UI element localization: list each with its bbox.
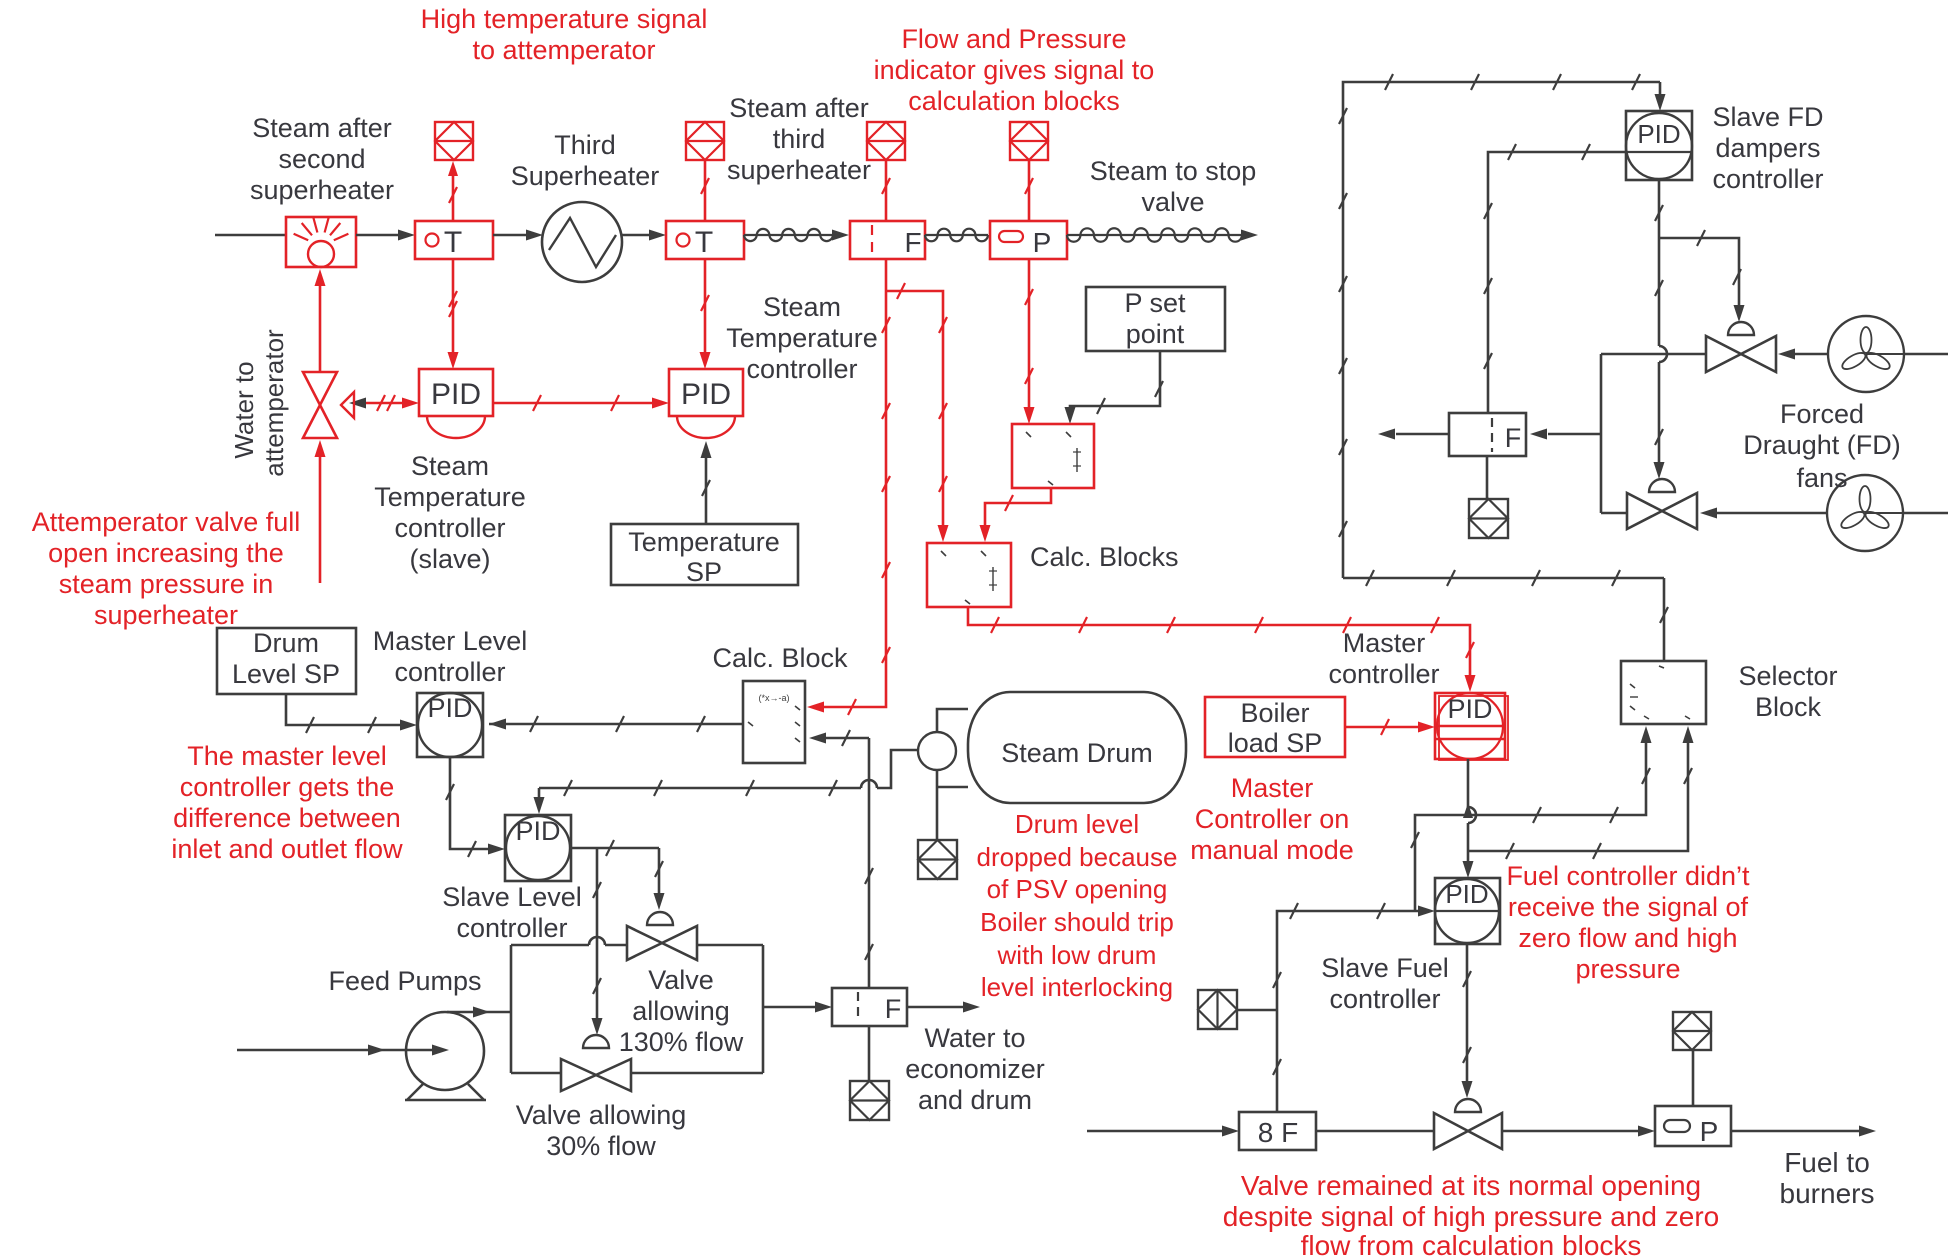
air diamond indicator [1469,499,1508,538]
wire steam line from second superheater [215,234,286,237]
wire attemperator to T1 [356,230,415,241]
svg-text:Calc. Block: Calc. Block [712,643,848,673]
label calc blocks [1030,542,1179,572]
wire to 30 percent valve [592,848,603,1035]
wire F to diamond [882,160,890,221]
wire drum impulse bottom and drum diamond link [937,770,968,840]
svg-text:level interlocking: level interlocking [981,972,1173,1002]
svg-text:superheater: superheater [94,600,238,630]
svg-text:Selector: Selector [1738,661,1837,691]
wire feed flow to calc block [809,730,869,746]
FD damper valve 2 [1627,479,1697,529]
wire air header [1530,354,1707,513]
wire P to diamond [1025,160,1033,221]
wire master level PID to slave level PID [446,757,505,857]
svg-text:difference between: difference between [173,803,401,833]
svg-text:Boiler: Boiler [1240,698,1309,728]
valve allowing 30 percent flow [561,1035,631,1091]
air flow transmitter F [1449,413,1526,456]
fuel pressure transmitter P [1655,1106,1731,1147]
label steam temperature controller slave [374,451,526,574]
wire selector input line to selector block [1343,570,1668,661]
wire drum level to slave level PID [534,750,919,814]
steam temperature controller PID1 slave [419,369,493,438]
wire boiler load SP to master PID [1345,719,1435,735]
svg-text:calculation blocks: calculation blocks [908,86,1120,116]
svg-text:of PSV opening: of PSV opening [987,874,1168,904]
svg-text:load SP: load SP [1228,728,1323,758]
svg-text:PID: PID [431,378,481,411]
svg-text:burners: burners [1780,1178,1875,1209]
feed pump [405,1012,486,1100]
wire steam T2 to F wavy [744,229,849,241]
calc block [743,681,805,763]
wire selector input A to fuel flow [1411,726,1652,911]
svg-text:controller: controller [456,913,567,943]
svg-text:F: F [904,227,921,258]
attemperator spray unit [286,217,356,267]
wire feed F to diamond [868,1026,871,1081]
wire selector output loop to FD PID [1339,74,1666,578]
label selector block [1738,661,1837,722]
wire master output to selector input B [1468,726,1694,859]
drum level SP box [217,628,356,694]
svg-text:Master Level: Master Level [373,626,528,656]
wire PID1 to attemperator valve [349,395,419,411]
wire master output to slave fuel PID [1463,851,1474,878]
label forced draught fans [1743,399,1901,493]
svg-text:dropped because: dropped because [977,842,1178,872]
wire slave level PID output to valves [571,840,659,856]
svg-text:controller: controller [394,513,505,543]
svg-text:Steam: Steam [763,292,841,322]
svg-text:F: F [885,994,902,1024]
wire fuel flow to slave fuel PID [1273,903,1435,1112]
svg-text:third: third [773,124,826,154]
label fuel controller didnt receive red [1506,861,1750,984]
wire superheater to T2 [622,230,666,241]
flow transmitter F steam [850,221,925,259]
label slave FD dampers controller [1712,102,1823,194]
boiler load SP box [1205,697,1345,758]
slave fuel controller PID [1435,878,1500,944]
svg-text:controller: controller [1328,659,1439,689]
svg-text:Attemperator valve full: Attemperator valve full [32,507,301,537]
svg-text:and drum: and drum [918,1085,1032,1115]
svg-text:Third: Third [554,130,616,160]
svg-text:Level SP: Level SP [232,659,340,689]
wire water supply to valve [315,440,326,583]
svg-text:pressure: pressure [1575,954,1680,984]
svg-text:economizer: economizer [905,1054,1045,1084]
svg-text:controller: controller [1329,984,1440,1014]
label water to attemperator rotated [229,329,289,477]
label master controller on manual mode red [1190,773,1354,865]
slave level controller PID [505,815,571,881]
wire calc block to master level PID [489,716,743,732]
calc block 1 red [1012,424,1094,488]
svg-text:controller: controller [746,354,857,384]
svg-text:controller: controller [1712,164,1823,194]
wire valve to attemperator [315,269,326,372]
wire T1 to diamond [448,161,458,221]
svg-text:High temperature signal: High temperature signal [421,4,708,34]
svg-text:Steam to stop: Steam to stop [1090,156,1257,186]
label valve allowing 130 [619,965,744,1057]
svg-text:superheater: superheater [727,155,871,185]
svg-text:PID: PID [1637,119,1680,149]
feedwater diamond indicator [850,1081,889,1120]
label master controller [1328,628,1439,689]
svg-text:Water to: Water to [924,1023,1025,1053]
svg-text:Valve remained at its normal o: Valve remained at its normal opening [1241,1170,1701,1201]
svg-text:Steam: Steam [411,451,489,481]
temperature transmitter T2 [666,221,744,259]
svg-text:P: P [1033,227,1052,258]
svg-text:P set: P set [1124,288,1186,318]
FD fan 2 [1827,475,1903,551]
label flow and pressure indicator red [874,24,1155,116]
wire drum level SP to master level PID [286,694,417,733]
fuel valve [1434,1099,1502,1149]
svg-text:Boiler should trip: Boiler should trip [980,907,1174,937]
label steam after second superheater [250,113,394,205]
steam temperature controller PID2 [669,369,743,438]
wire air flow to FD PID [1484,144,1626,413]
master level controller PID [417,693,483,757]
FD fan 1 [1828,316,1904,392]
wire fuel P to diamond [1692,1050,1695,1106]
steam drum [968,692,1186,803]
svg-text:to attemperator: to attemperator [472,35,655,65]
label valve remained red [1223,1170,1720,1257]
wire steam P signal down to calc1 [1024,259,1035,424]
label feed pumps [328,966,481,996]
label calc block [712,643,848,673]
indicator diamond above F [867,122,905,160]
svg-text:controller: controller [394,657,505,687]
wire feed pump inlet [237,1045,449,1056]
label the master level controller red [171,741,403,864]
fuel diamond indicator left [1198,990,1277,1029]
svg-text:PID: PID [1445,879,1488,909]
wire air F to diamond [1486,456,1489,499]
svg-text:PID: PID [515,816,560,846]
svg-text:Steam after: Steam after [729,93,869,123]
svg-text:controller gets the: controller gets the [180,772,395,802]
svg-text:Slave FD: Slave FD [1712,102,1823,132]
svg-text:second: second [278,144,365,174]
svg-text:30% flow: 30% flow [546,1131,656,1161]
label attemperator valve full open red [32,507,301,630]
wire steam F to P wavy [925,229,988,242]
label master level controller [373,626,528,687]
wire to 130 percent valve [654,848,665,910]
indicator diamond above T2 [686,122,724,160]
svg-text:PID: PID [681,378,731,411]
svg-text:Drum level: Drum level [1015,809,1139,839]
svg-text:F: F [1505,423,1522,453]
wire drum impulse top [937,709,968,732]
svg-text:Valve allowing: Valve allowing [516,1100,687,1130]
selector block [1621,661,1706,724]
label steam after third superheater [727,93,871,185]
wire feed F transmitter up [865,738,873,988]
indicator diamond above T1 [435,122,473,160]
wire P set point to calc1 [1065,351,1164,424]
svg-text:Fuel to: Fuel to [1784,1147,1870,1178]
svg-text:Calc. Blocks: Calc. Blocks [1030,542,1179,572]
master controller PID red [1435,693,1508,760]
svg-text:inlet and outlet flow: inlet and outlet flow [171,834,403,864]
label high temperature signal red [421,4,708,65]
svg-text:manual mode: manual mode [1190,835,1354,865]
wire to feed F box [763,1002,832,1013]
wire FD PID branch to damper 1 [1659,230,1745,322]
wire air F output left [1378,429,1449,440]
svg-text:Temperature: Temperature [374,482,526,512]
wire PID1 to PID2 [493,395,669,411]
fuel flow element 8F box [1239,1112,1316,1150]
label water to economizer [905,1023,1045,1115]
wire T1 to third superheater [493,230,543,241]
svg-text:(*x→-a): (*x→-a) [759,693,790,703]
wire steam F branch to calc2 [886,283,949,542]
svg-text:attemperator: attemperator [259,329,289,477]
svg-text:The master level: The master level [187,741,387,771]
wire steam F signal down to calc block [807,259,890,715]
svg-text:Valve: Valve [648,965,714,995]
P set point box [1086,287,1225,351]
drum level transmitter [918,732,956,770]
svg-text:open increasing the: open increasing the [48,538,284,568]
svg-text:Controller on: Controller on [1195,804,1350,834]
svg-text:indicator gives signal to: indicator gives signal to [874,55,1155,85]
indicator diamond above P [1010,122,1048,160]
svg-text:Water to: Water to [229,361,259,458]
svg-text:despite signal of high pressur: despite signal of high pressure and zero [1223,1201,1720,1232]
wire calc2 output to master controller [968,607,1476,692]
wire feed pump discharge [447,1007,511,1018]
svg-text:Flow and Pressure: Flow and Pressure [901,24,1126,54]
label slave fuel controller [1321,953,1449,1014]
svg-text:Steam after: Steam after [252,113,392,143]
svg-text:Feed Pumps: Feed Pumps [328,966,481,996]
svg-text:steam pressure in: steam pressure in [59,569,274,599]
svg-text:T: T [444,226,462,259]
svg-text:Slave Level: Slave Level [442,882,582,912]
svg-text:Block: Block [1755,692,1822,722]
label fuel to burners [1780,1147,1875,1209]
wire fan1 to damper1 [1778,349,1948,360]
svg-text:superheater: superheater [250,175,394,205]
svg-text:Drum: Drum [253,628,319,658]
wire FD PID output [1654,180,1668,479]
svg-text:(slave): (slave) [409,544,490,574]
wire T2 to diamond [701,160,709,221]
svg-text:T: T [695,226,713,259]
svg-text:zero flow and high: zero flow and high [1518,923,1737,953]
svg-text:dampers: dampers [1715,133,1820,163]
pressure transmitter P steam [990,221,1067,259]
svg-text:130% flow: 130% flow [619,1027,744,1057]
wire steam to stop valve wavy [1067,228,1258,241]
wire slave fuel PID to fuel valve [1462,944,1473,1098]
third superheater [542,202,622,282]
label third superheater [511,130,660,191]
wire temperature SP to PID2 [701,441,712,524]
svg-text:Superheater: Superheater [511,161,660,191]
svg-text:Steam Drum: Steam Drum [1001,738,1153,768]
svg-text:8 F: 8 F [1258,1117,1298,1148]
svg-text:Temperature: Temperature [628,527,780,557]
temperature transmitter T1 [415,221,493,259]
wire T1 down to PID1 [448,259,459,369]
svg-text:PID: PID [1447,694,1492,724]
label steam to stop valve [1090,156,1257,217]
fuel P diamond indicator [1673,1012,1711,1050]
wire feed F to economizer [907,1002,980,1013]
svg-text:Slave Fuel: Slave Fuel [1321,953,1449,983]
calc block 2 red [927,543,1011,607]
label steam temperature controller [726,292,878,384]
feedwater flow transmitter F [832,988,907,1026]
svg-text:with low drum: with low drum [997,940,1157,970]
wire calc1 to calc2 [980,488,1052,542]
svg-text:flow from calculation blocks: flow from calculation blocks [1301,1230,1642,1257]
svg-text:fans: fans [1796,463,1847,493]
svg-text:point: point [1126,319,1185,349]
svg-text:Master: Master [1343,628,1426,658]
svg-text:allowing: allowing [632,996,730,1026]
svg-text:valve: valve [1141,187,1204,217]
svg-text:Temperature: Temperature [726,323,878,353]
wire T2 down to PID2 [700,259,711,369]
svg-text:receive the signal of: receive the signal of [1508,892,1749,922]
wire fuel line [1087,1126,1876,1137]
svg-text:Master: Master [1231,773,1314,803]
svg-text:Draught (FD): Draught (FD) [1743,430,1901,460]
attemperator valve [303,372,354,438]
wire master PID output down [1463,759,1476,851]
svg-text:Fuel controller didn’t: Fuel controller didn’t [1506,861,1750,891]
temperature SP box [611,524,798,587]
svg-text:PID: PID [427,693,472,723]
svg-text:SP: SP [686,557,722,587]
label slave level controller [442,882,582,943]
valve allowing 130 percent flow [627,912,697,960]
FD damper valve 1 [1706,322,1776,372]
svg-text:P: P [1700,1116,1719,1147]
slave FD dampers controller PID [1626,111,1692,180]
label valve allowing 30 [516,1100,687,1161]
label drum level dropped red [977,809,1178,1002]
svg-text:Forced: Forced [1780,399,1864,429]
wire feedwater loop [511,937,763,1073]
wire fan2 to damper2 [1700,508,1948,519]
drum diamond indicator [918,840,957,879]
